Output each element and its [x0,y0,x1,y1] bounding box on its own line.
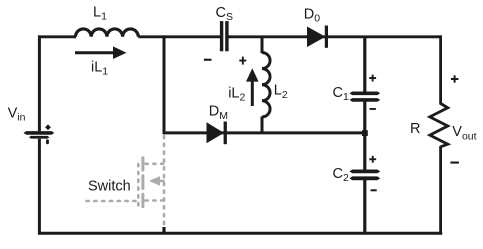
svg-text:CS: CS [216,5,234,23]
capacitor C2 plates [350,170,381,174]
wire top middle segment [138,35,220,38]
C2 minus sign [371,189,377,191]
CS minus sign [204,59,212,61]
wire capacitor branch middle [363,102,366,170]
switch drain lead dashed [146,163,164,166]
resistor R [430,104,448,147]
wire mid vertical (node to switch) [163,35,166,133]
C2 plus sign [369,158,376,160]
switch channel bar source [141,194,144,207]
svg-text:C1: C1 [333,85,349,103]
wire left vertical lower [38,139,41,235]
source Vin battery [24,131,55,135]
wire bottom [38,232,442,235]
svg-text:Vin: Vin [8,105,26,123]
svg-text:DM: DM [209,104,228,123]
Vout minus sign [450,162,459,164]
wire capacitor branch lower [363,180,366,235]
switch channel bar drain [141,158,144,170]
switch gate vertical line [137,164,140,207]
wire capacitor branch upper [363,37,366,92]
current arrow iL1 [75,51,115,54]
wire right vertical lower [439,146,442,235]
svg-text:C2: C2 [333,166,349,184]
junction node dot [362,130,368,136]
svg-text:R: R [410,121,420,137]
svg-text:iL2: iL2 [228,86,245,104]
wire left vertical upper [38,35,41,131]
svg-text:Switch: Switch [88,178,131,194]
svg-text:D0: D0 [304,6,320,24]
capacitor CS plates [220,21,223,51]
C1 minus sign [370,108,376,110]
switch gate lead dashed [87,200,138,203]
inductor L1 [76,29,139,37]
wire L2 bottom stub [261,117,264,134]
wire top right segment [229,35,443,38]
capacitor C1 plates [350,92,381,96]
wire top-left segment [38,35,76,38]
switch main vertical dashed wire [163,136,166,228]
C1 plus sign [369,77,376,79]
svg-text:L2: L2 [274,83,288,101]
svg-text:iL1: iL1 [91,60,108,78]
CS plus sign [239,60,246,62]
wire right vertical upper [439,35,442,104]
inductor L2 [262,53,270,117]
switch source lead dashed [146,199,164,202]
diode D0 [307,27,326,48]
diode DM [207,122,225,143]
Vout plus sign [451,78,459,80]
wire L2 top stub [261,36,264,54]
svg-text:L1: L1 [93,4,107,22]
svg-text:Vout: Vout [452,124,476,142]
switch body arrow [149,176,160,186]
switch channel bar body [141,176,144,189]
wire DM row [163,131,367,134]
switch bottom black tick [162,227,165,235]
current arrow iL2 [251,81,254,107]
